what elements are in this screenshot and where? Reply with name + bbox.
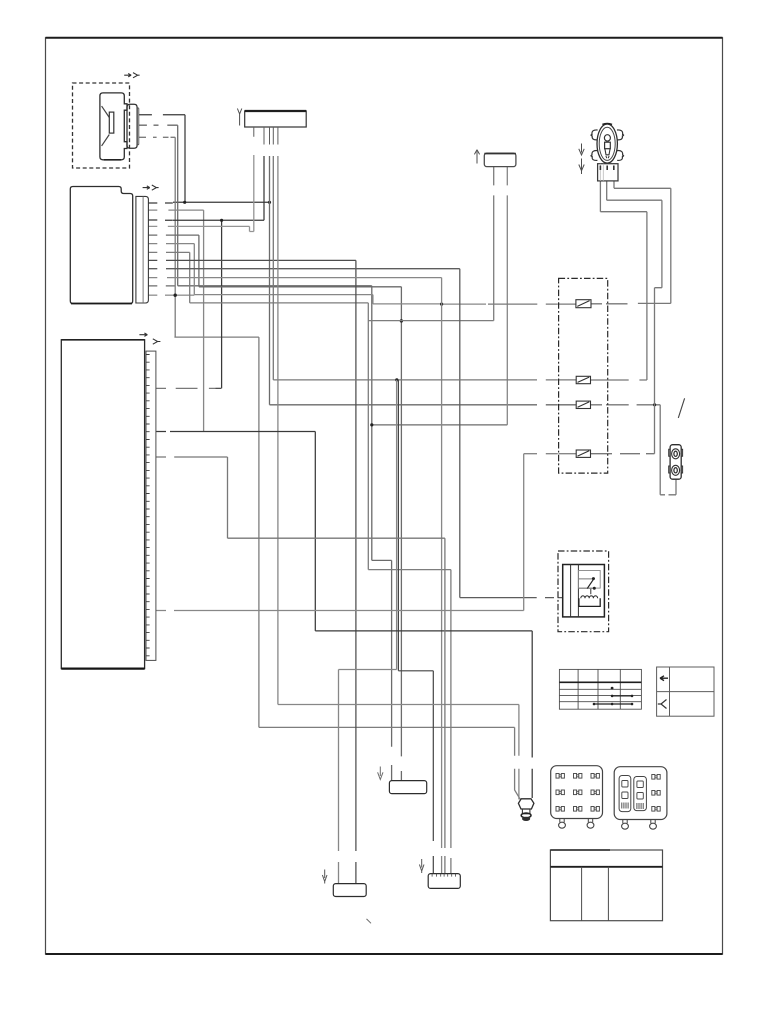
connector continuation arrow above speaker	[124, 74, 131, 77]
page border frame	[46, 38, 723, 954]
wire: dashed pin row of main block	[156, 387, 221, 389]
main harness block (large left rectangle)	[61, 340, 144, 669]
legend arrow left glyph	[660, 676, 668, 681]
node junction dot (371.8,424.9)	[370, 423, 373, 426]
wire: main block row 457 to connector4 pin3	[156, 457, 445, 874]
fuse box dash-dot border	[559, 278, 608, 473]
wire: fuse3 right side to battery	[591, 405, 677, 495]
wire: CDI row5 staircase to connector2 right pin	[148, 235, 401, 781]
node junction dot fuse2 (396.8,379.9)	[395, 378, 398, 381]
node junction dot (175.2,295.2)	[174, 294, 177, 297]
pin view block B feet	[623, 820, 627, 824]
relay coil	[581, 596, 598, 598]
down arrow near C3	[322, 870, 327, 884]
wire: vertical x368 down to connector4 pin4	[368, 303, 451, 874]
battery terminal eyelet top	[672, 449, 680, 459]
pin view block A (3x3)	[551, 766, 603, 819]
relay coil base	[579, 598, 600, 606]
title block	[550, 850, 662, 921]
Y branch symbol left of bus bar	[237, 109, 241, 126]
ignition mounting ear top-right	[617, 130, 624, 140]
G1: wires layer	[139, 115, 676, 884]
ignition switch outer ellipse	[597, 124, 617, 163]
ignition mounting ear top-left	[591, 130, 598, 140]
wire: main block row 610 to fuse4	[156, 454, 576, 611]
main block pin strip	[146, 351, 156, 660]
slash mark near battery	[678, 398, 684, 418]
fuse F2	[576, 376, 590, 383]
ignition key symbol	[604, 135, 610, 141]
relay body	[563, 565, 605, 617]
small backslash mark bottom centre	[367, 919, 372, 923]
wire: CDI row7 + horn pin1 zigzag	[148, 167, 493, 321]
battery / terminal block	[670, 445, 681, 480]
ignition mounting ear bottom-left	[591, 151, 598, 161]
ignition connector box	[598, 164, 618, 181]
down arrow near C4	[419, 859, 424, 873]
node junction dot fuse1 (441.6,304.1)	[440, 303, 443, 306]
battery side tabs	[669, 449, 683, 473]
wire: CDI row6 to fuse1 and ignition pin3	[148, 244, 486, 305]
wire: speaker pin3 + chain to spark plug cable left	[139, 137, 521, 799]
horn (top middle component)	[484, 153, 516, 166]
bus bar (top distribution strip)	[245, 111, 307, 127]
ignition switch inner ellipse	[599, 127, 615, 160]
table marks	[611, 687, 614, 690]
speaker body	[100, 93, 127, 160]
pin view block A feet	[560, 819, 564, 823]
double down arrows left of ignition	[579, 144, 584, 156]
wire: horn pin2 vertical	[506, 167, 508, 425]
wire: bus pin4 to fuse2 and ignition pin1	[273, 156, 647, 380]
main block pin ticks	[0, 0, 1, 1]
node junction dot fuse3/ignition (654.6,404.8)	[653, 403, 656, 406]
connector continuation arrow above CDI	[143, 186, 150, 189]
pin view block A pin icons 3x3	[556, 774, 564, 779]
spark plug hexagon	[518, 799, 534, 809]
wire: fuse2 dot branch down-left to connector3 left pin	[339, 380, 397, 884]
CDI bottom dark edge	[71, 303, 132, 305]
node junction dot B (269.5,202.3)	[268, 201, 271, 204]
wire color table	[559, 669, 641, 709]
CDI unit body	[70, 187, 132, 304]
legend fork glyph	[658, 700, 667, 709]
down arrow near C2	[378, 767, 383, 780]
ignition mounting ear bottom-right	[617, 151, 624, 161]
node junction dot (401.4,320.9)	[400, 319, 403, 322]
ignition top cap	[602, 124, 612, 125]
pin view block B right column pins	[652, 775, 660, 780]
wire: bus pin3 down to fuse3 row	[270, 156, 576, 405]
fuse F4	[576, 450, 590, 457]
pin view block B sockets	[619, 776, 631, 812]
wire: CDI row8 to connector3 right pin	[148, 260, 356, 883]
speaker connector	[127, 104, 137, 148]
connector continuation arrows above main block	[139, 333, 147, 336]
wire: speaker pin2 + CDI pin10 net P	[139, 125, 508, 780]
ignition connector pins	[600, 166, 613, 171]
dashed option box around speaker	[73, 83, 130, 168]
wire: fuse2 dot second branch down-right to connector4 left pin (dark)	[398, 380, 433, 874]
fuse F1	[576, 300, 591, 308]
wire: CDI row12 (y277.6) to connector4 pin1	[148, 278, 441, 874]
wire: CDI row2 down to row431	[148, 210, 203, 431]
connector C4 (bottom middle)	[428, 874, 460, 889]
relay dash-dot border	[558, 551, 609, 632]
bus bar pins	[254, 127, 278, 145]
speaker cone	[102, 106, 110, 146]
legend box	[657, 667, 714, 716]
relay contacts	[578, 579, 593, 588]
wire: CDI row4 + bus pin1	[148, 155, 253, 232]
CDI connector strip	[136, 196, 149, 303]
spark plug tip	[521, 813, 531, 818]
pin view block B	[614, 767, 667, 820]
relay switch frame	[578, 571, 600, 589]
battery terminal eyelet bottom	[672, 465, 680, 475]
spark plug thread	[522, 809, 530, 814]
wire: CDI row3 + bus pin2 + dashed row of main harness (dark)	[148, 156, 264, 388]
node junction dot A (184.7,202.3)	[183, 201, 186, 204]
connector C3 (bottom left)	[333, 884, 366, 897]
up arrow near horn	[474, 150, 479, 164]
connector C2 (mid bottom)	[389, 781, 426, 794]
wire: main block row 431 (dark) to plug right line	[156, 432, 532, 799]
fuse F3	[576, 401, 590, 408]
wire: bus pin5 down to spark plug cable	[278, 156, 519, 799]
wire: CDI row11 stub and link to row6 vertical	[148, 294, 194, 296]
node junction dot (221.6,220.3)	[220, 219, 223, 222]
wire: speaker pin1 to row1 (dark)	[139, 115, 270, 203]
speaker body bottom dark edge	[104, 159, 121, 161]
wire: fuse4 right to ignition pin2 chain	[591, 181, 662, 454]
wire: CDI row9 to relay	[148, 269, 562, 598]
